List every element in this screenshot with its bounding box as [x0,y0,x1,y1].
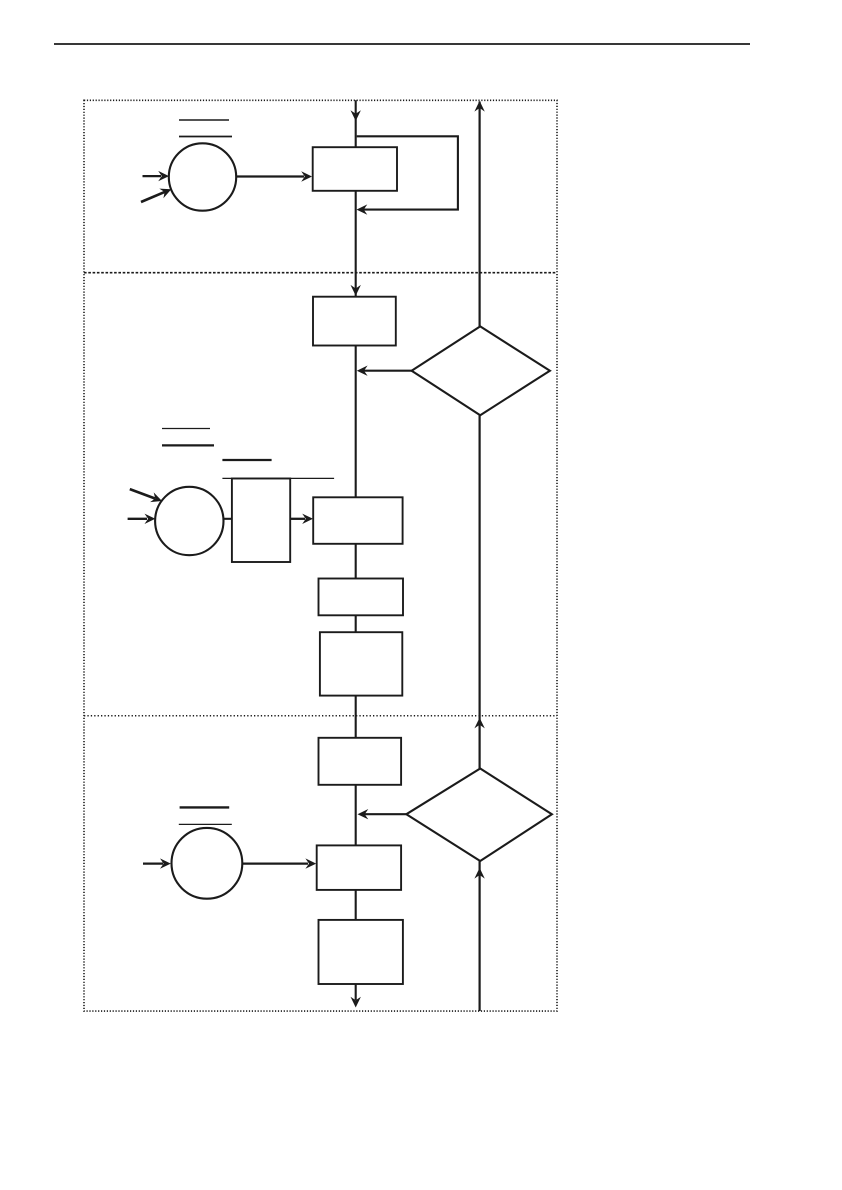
wire: E3 to process R6 with arrowhead [242,858,316,868]
wire: feedback return line (right vertical) [479,102,481,1012]
process box R3 [319,579,404,616]
label line above event E3 (upper thick) [180,806,230,808]
event circle E1 [169,143,236,210]
process box R4 [320,632,402,695]
arrowhead: main flow entry (down) [351,110,361,121]
arrow into E1 (horizontal) [143,171,170,181]
wire: D1 to main line with arrowhead (left) [357,366,412,376]
label line above event E3 (lower thin) [179,823,232,825]
event circle E3 [172,828,243,899]
label line above event E2 (lower thick) [162,444,214,446]
data object box (tall) [232,479,290,563]
wire: loop around process R1 [357,136,458,209]
label line above event E2 (upper thin) [162,428,210,430]
wire: data object to process R2b with arrowhead [290,514,313,524]
process box R5 [319,738,402,785]
process box R2 [313,297,396,346]
arrowhead: return line into diamond D2 bottom (up) [474,868,484,879]
process box R2b [313,497,402,544]
process box R6 [317,845,401,890]
arrow into E1 (diagonal) [141,189,171,202]
lane divider 2 (dotted) [84,715,557,717]
arrowhead: main line into R2 (down) [351,285,361,296]
arrow into E2 (diagonal) [130,489,162,502]
swimlane frame (dotted border) [84,100,557,1011]
label line above data object (short thick) [222,459,271,461]
header rule [54,43,750,45]
arrowhead: return line below divider 2 (up) [474,718,484,729]
arrowhead: return line top (up) [474,101,484,112]
wire: main flow vertical line [355,100,357,1000]
arrow into E2 (horizontal) [128,514,156,524]
wire: D2 to main line with arrowhead (left) [358,809,407,819]
label line above event E1 (upper) [179,119,229,121]
label line above data object (long thin) [222,477,334,479]
process box R1 [313,147,397,191]
decision diamond D1 [412,326,550,415]
wire: E1 to process R1 with arrowhead [236,171,312,181]
event circle E2 [155,487,223,555]
arrowhead: loop re-entry (left) [357,204,368,214]
process box R7 [319,920,403,984]
arrow into E3 (horizontal) [143,858,171,868]
label line above event E1 (lower) [179,136,232,138]
wire: E2 to data object [223,518,232,520]
decision diamond D2 [406,769,552,862]
lane divider 1 (dashed) [84,272,557,274]
arrowhead: flow exit at bottom (down) [351,997,361,1008]
